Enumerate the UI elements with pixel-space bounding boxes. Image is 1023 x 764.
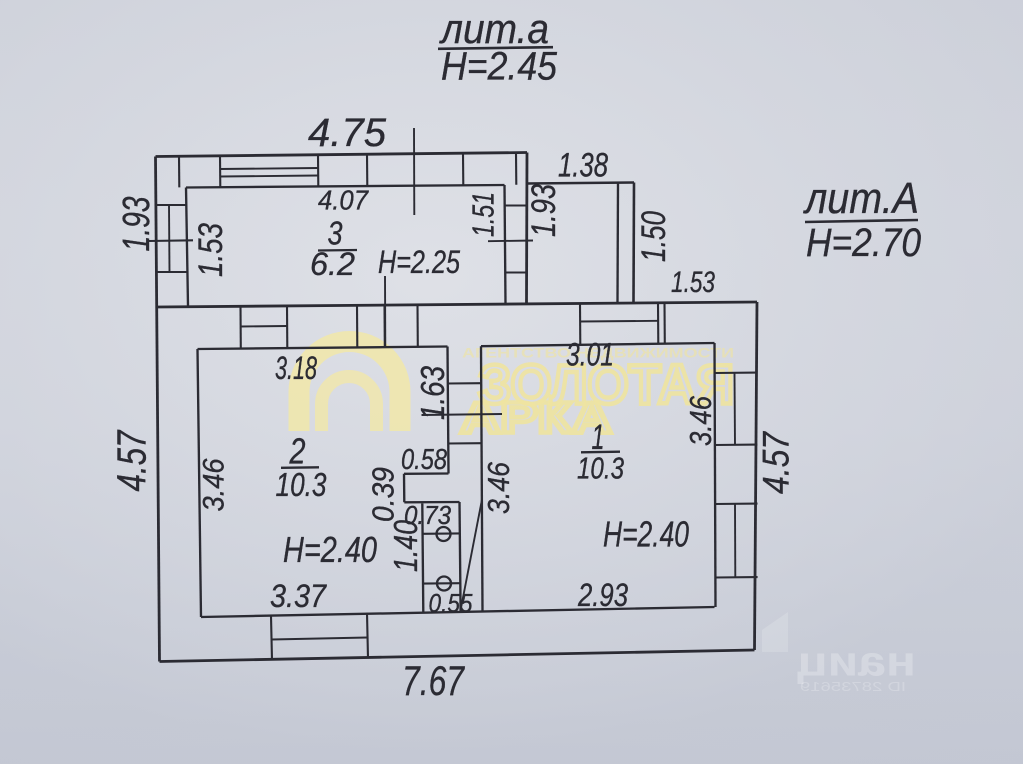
window annex left sill top [156,204,187,206]
svg-text:1.53: 1.53 [192,223,230,277]
wall room3 left inner [186,188,188,307]
window annex left sill bottom [157,271,188,273]
svg-text:4.57: 4.57 [756,431,797,494]
svg-text:0.55: 0.55 [429,588,473,618]
window right upper pane line [734,373,737,445]
annex top band divider e [462,154,464,186]
window main bottom left jamb [271,616,272,660]
watermark cian house icon [762,612,788,652]
main top band divider f [579,303,581,345]
stove niche left [403,474,406,503]
room1 fraction line [581,451,620,454]
svg-text:1.53: 1.53 [671,266,715,299]
stove niche top [404,472,449,475]
svg-text:лит.А: лит.А [802,174,919,223]
heading lit.a underline [438,47,553,49]
watermark golden arch logo inner arc [322,376,377,431]
main top band divider d [383,305,385,347]
wall extension outer right [632,183,635,303]
svg-text:3.01: 3.01 [566,337,614,373]
window main top-right pane line [580,320,658,323]
svg-text:ID 28735619: ID 28735619 [800,679,906,694]
stove niche bottom [404,501,459,504]
svg-text:10.3: 10.3 [577,451,624,486]
svg-text:2.93: 2.93 [577,577,628,613]
svg-text:4.57: 4.57 [109,429,155,492]
window annex top pane line 2 [220,176,318,177]
svg-text:0.58: 0.58 [401,444,447,476]
partition left face [448,347,449,474]
svg-text:1.93: 1.93 [525,184,563,237]
wall annex right outer [525,153,528,304]
svg-text:Н=2.70: Н=2.70 [806,221,921,265]
svg-text:10.3: 10.3 [276,466,328,503]
flue divider upper [423,532,460,534]
flue divider lower [423,582,460,584]
svg-text:1.93: 1.93 [116,197,158,252]
partition mid divider [448,442,482,444]
svg-text:0.39: 0.39 [366,467,401,522]
svg-text:3.37: 3.37 [270,578,327,614]
svg-text:АРКА: АРКА [460,394,612,443]
wall room2 top inner [198,347,448,350]
wall rooms bottom inner [201,607,715,617]
room3 fraction line [318,249,357,252]
svg-text:Н=2.25: Н=2.25 [378,244,460,280]
window annex left pane line [168,205,171,272]
annex top band divider c [317,155,319,186]
flue shaft left [422,504,423,613]
window right lower pane line [734,504,736,578]
window main bottom pane line [272,638,368,640]
wall main right outer [755,302,758,650]
svg-text:3.18: 3.18 [275,350,317,386]
svg-text:Н=2.40: Н=2.40 [603,514,689,555]
window right lower sill bottom [715,576,757,579]
wall annex top outer [156,153,528,157]
svg-text:4.75: 4.75 [308,111,387,155]
room2 fraction line [281,466,319,469]
window right upper sill top [715,372,757,374]
wall room3 right inner [505,185,506,304]
svg-text:наиц: наиц [797,638,916,685]
window main top-left pane line [241,325,288,328]
main top band divider h [663,303,665,344]
window annex right sill bottom [505,271,527,273]
svg-text:6.2: 6.2 [310,246,355,282]
window right upper sill bottom [715,444,757,446]
wall main bottom outer [160,650,755,662]
partition right face (room1 left) [481,346,483,610]
watermark golden arch logo outer arc [299,342,400,432]
dimension tick 4.75 extent [413,128,415,215]
svg-text:1.38: 1.38 [558,147,608,185]
svg-text:1.40: 1.40 [387,519,424,572]
main top band divider b [286,306,288,348]
window main bottom right jamb [367,613,368,659]
svg-text:Н=2.45: Н=2.45 [441,45,558,89]
svg-text:7.67: 7.67 [402,657,465,704]
partition head divider [448,382,482,384]
svg-text:1.50: 1.50 [635,211,673,262]
main top band divider a [239,306,241,348]
dimension tick across annex right wall [488,240,533,243]
wall left outer (annex+main) [156,157,160,662]
flue circle lower [437,577,451,591]
flue circle upper [437,527,451,541]
wall main top outer [157,302,757,307]
wall room3 top inner [186,185,505,188]
svg-text:Н=2.40: Н=2.40 [283,529,377,570]
window right lower sill top [715,503,757,505]
main top band divider e [416,305,418,347]
dimension tick below H=2.25 [384,276,386,347]
svg-text:3.46: 3.46 [198,458,231,511]
watermark cian text mirrored [797,638,916,685]
wall room1 top inner [481,343,715,346]
annex top band divider f [515,153,517,185]
window annex left sill mid [149,239,193,242]
svg-text:4.07: 4.07 [318,185,369,216]
window annex top pane line 1 [220,168,318,169]
svg-text:1.63: 1.63 [414,365,451,420]
annex top band divider a [178,156,180,187]
wall extension inner right [616,183,619,302]
wall extension top [527,183,634,184]
flue shaft right [460,502,461,612]
door leaf diagonal [461,500,482,611]
annex top band divider b [219,156,221,187]
main top band divider g [657,303,659,344]
svg-text:1.51: 1.51 [466,192,501,237]
main top band divider c [356,305,358,347]
svg-text:3.46: 3.46 [481,461,516,514]
watermark cian id mirrored [800,679,906,694]
heading lit.A underline [805,220,918,222]
annex top band divider d [366,155,368,187]
window annex right sill top [505,204,527,206]
svg-text:3.46: 3.46 [683,395,718,446]
dimension tick across partition [422,414,503,415]
wall room2 left inner [198,349,202,617]
wall room1 right inner [715,343,716,607]
